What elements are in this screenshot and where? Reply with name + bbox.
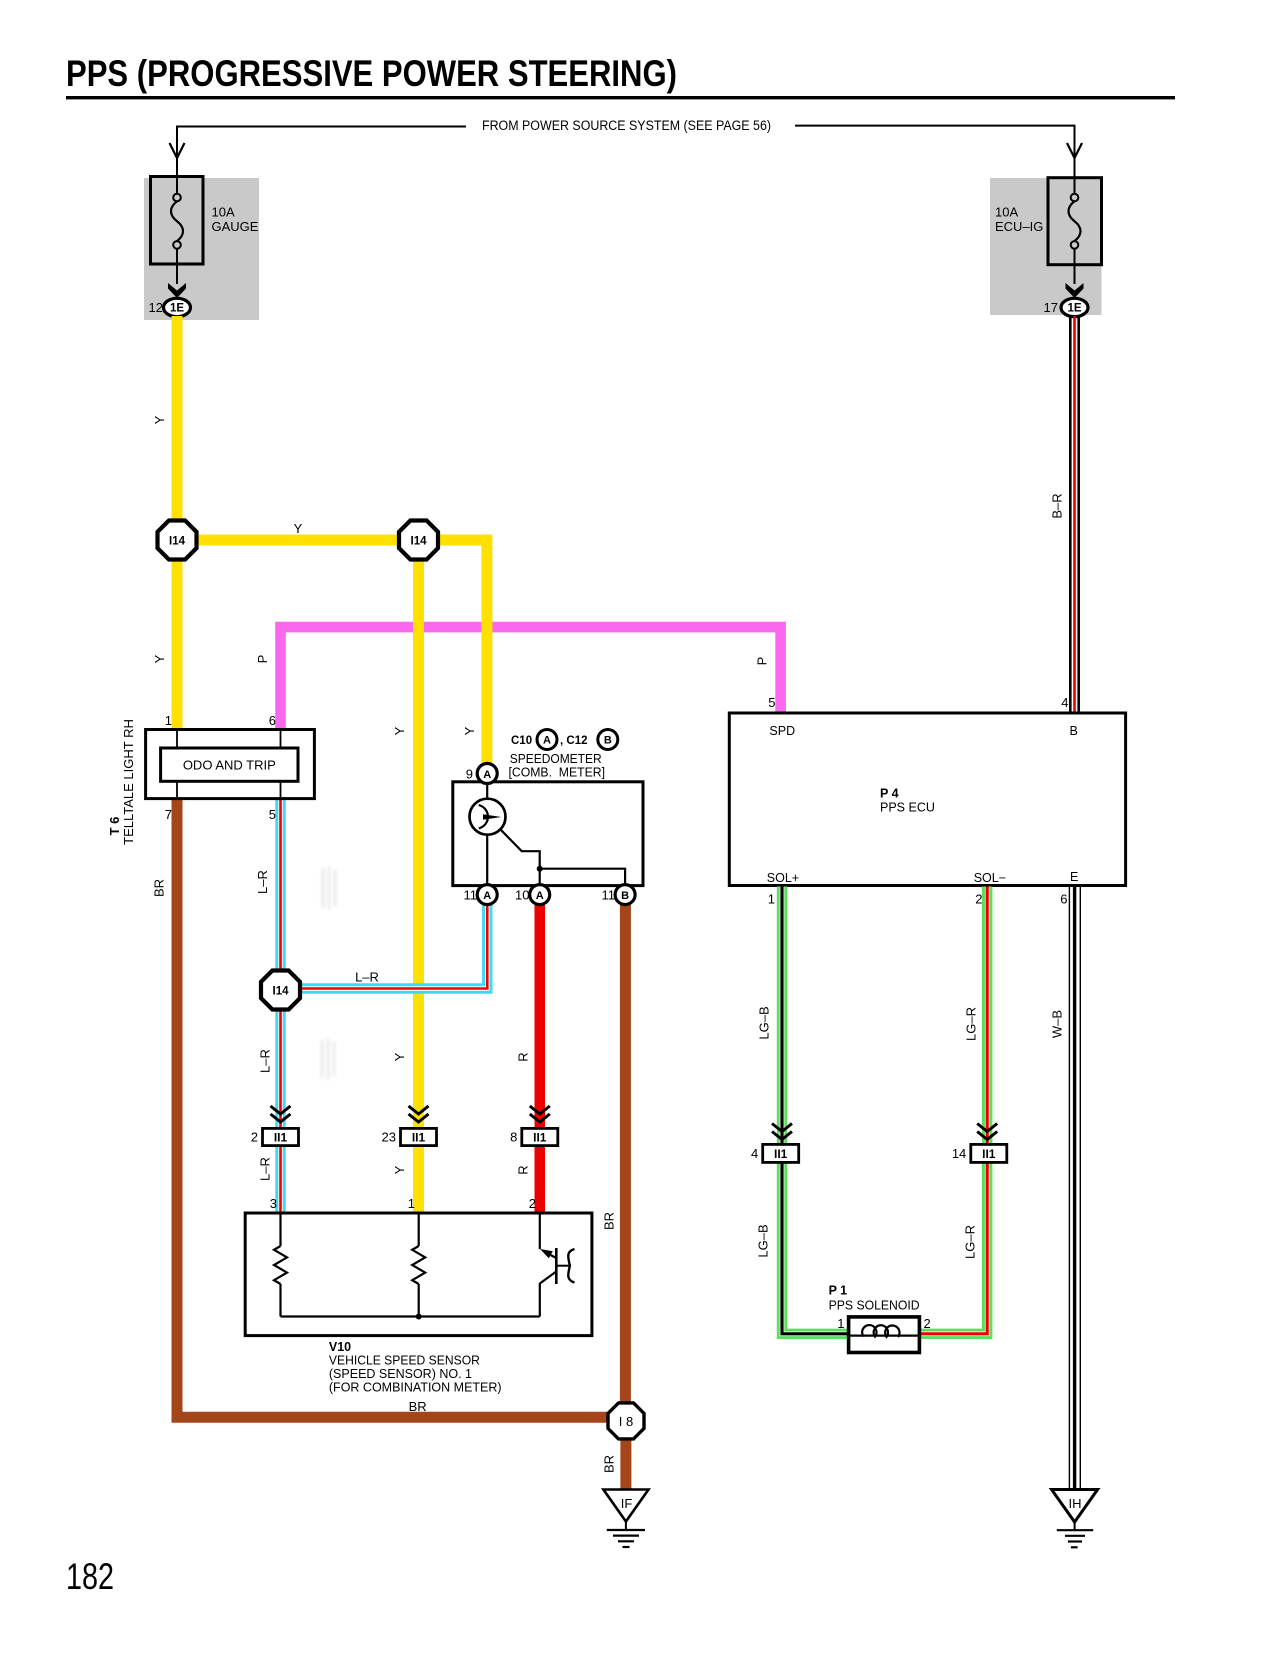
svg-text:6: 6: [269, 713, 276, 728]
svg-text:I 8: I 8: [619, 1414, 633, 1429]
svg-text:1: 1: [837, 1316, 844, 1331]
svg-text:9: 9: [466, 766, 473, 781]
svg-text:VEHICLE SPEED SENSOR: VEHICLE SPEED SENSOR: [329, 1354, 480, 1368]
svg-text:5: 5: [768, 695, 775, 710]
svg-text:L–R: L–R: [355, 970, 379, 985]
svg-text:2: 2: [924, 1316, 931, 1331]
svg-text:182: 182: [66, 1556, 114, 1597]
svg-text:C10: C10: [511, 735, 532, 747]
svg-text:LG–R: LG–R: [963, 1225, 978, 1259]
junction dot: [416, 1314, 422, 1320]
svg-text:V10: V10: [329, 1340, 351, 1354]
wire LG-B from ECU SOL+ to II1: [777, 887, 787, 1145]
svg-text:B–R: B–R: [1050, 493, 1065, 518]
internal bus wire: [281, 1315, 540, 1317]
label C10 A , C12 B: [511, 730, 618, 750]
svg-text:E: E: [1070, 870, 1078, 884]
svg-text:R: R: [515, 1165, 530, 1174]
svg-text:Y: Y: [392, 726, 407, 735]
ground IF: [603, 1490, 648, 1548]
wire power feed right: [795, 126, 1082, 178]
wire BR (brown) T6 pin 7 down and right to I8: [177, 798, 612, 1417]
component P4 PPS ECU: [729, 713, 1125, 886]
wire Y horizontal I14 to I14: [177, 535, 419, 546]
connector 17 1E: [1044, 298, 1088, 316]
svg-text:LG–B: LG–B: [756, 1224, 771, 1257]
svg-text:Y: Y: [392, 1052, 407, 1061]
svg-text:FROM POWER SOURCE SYSTEM (SEE: FROM POWER SOURCE SYSTEM (SEE PAGE 56): [482, 118, 771, 133]
svg-text:3: 3: [270, 1196, 277, 1211]
ground IH: [1052, 1490, 1098, 1548]
svg-text:6: 6: [1060, 892, 1067, 907]
connector II1 pin 14: [952, 1144, 1007, 1162]
wire R (red) speedometer 10(A) to V10 pin 2: [535, 903, 546, 1214]
connector 11 B bottom: [602, 885, 636, 905]
svg-text:IH: IH: [1069, 1496, 1082, 1511]
svg-text:7: 7: [165, 807, 172, 822]
junction I14 left: [158, 521, 197, 560]
svg-text:BR: BR: [602, 1212, 617, 1230]
svg-text:II1: II1: [274, 1131, 288, 1145]
svg-text:P: P: [255, 655, 270, 664]
chevron arrows above II1 pin14: [977, 1124, 997, 1140]
svg-text:BR: BR: [152, 879, 167, 897]
svg-text:SOL+: SOL+: [767, 871, 799, 885]
svg-text:Y: Y: [294, 521, 303, 536]
svg-text:W–B: W–B: [1050, 1010, 1065, 1038]
wire L-R from junction I14 down to connector II1 pin 2: [275, 1003, 285, 1128]
chevron arrows above II1 pin4: [772, 1124, 792, 1140]
svg-text:10: 10: [515, 887, 529, 902]
svg-text:BR: BR: [602, 1455, 617, 1473]
svg-text:1E: 1E: [170, 303, 184, 315]
svg-text:(FOR COMBINATION METER): (FOR COMBINATION METER): [329, 1381, 502, 1395]
svg-text:P: P: [755, 657, 770, 666]
gauge icon: [470, 799, 506, 835]
svg-text:10A: 10A: [995, 205, 1018, 220]
svg-text:ECU–IG: ECU–IG: [995, 219, 1043, 234]
svg-text:L–R: L–R: [258, 1049, 273, 1073]
fuse 10A ECU-IG (right fuse block): [990, 178, 1102, 315]
wire L-R from junction I14 to speedometer 11(A): [282, 903, 487, 989]
svg-text:P 1: P 1: [829, 1284, 848, 1298]
svg-text:11: 11: [464, 887, 478, 902]
svg-text:R: R: [515, 1052, 530, 1061]
svg-text:2: 2: [529, 1196, 536, 1211]
svg-text:23: 23: [382, 1130, 396, 1145]
component speedometer C10/C12: [453, 782, 643, 889]
wire Y (yellow) fuse 12 down to T6 pin 1: [172, 316, 183, 731]
connector 12 1E: [149, 298, 191, 316]
svg-text:SPEEDOMETER: SPEEDOMETER: [510, 752, 602, 766]
component T6 TELLTALE LIGHT RH: [146, 730, 315, 799]
wire LG-R from II1 to solenoid pin 2: [918, 1162, 987, 1333]
svg-text:Y: Y: [462, 726, 477, 735]
svg-text:II1: II1: [982, 1147, 996, 1161]
component P1 PPS SOLENOID: [849, 1317, 920, 1353]
svg-text:LG–R: LG–R: [964, 1007, 979, 1041]
connector II1 pin 2: [251, 1128, 299, 1145]
svg-text:[COMB. METER]: [COMB. METER]: [509, 766, 606, 780]
wire Y corner to speedometer 9(A): [430, 540, 487, 764]
svg-text:A: A: [483, 890, 491, 902]
svg-text:SPD: SPD: [769, 724, 795, 738]
chevron arrows above II1 pin8: [530, 1106, 550, 1122]
transistor Q: [539, 1214, 541, 1249]
svg-text:14: 14: [952, 1146, 966, 1161]
svg-text:II1: II1: [533, 1131, 547, 1145]
scan smudges: [321, 866, 336, 1080]
svg-text:LG–B: LG–B: [757, 1006, 772, 1039]
svg-text:10A: 10A: [212, 205, 235, 220]
svg-text:PPS (PROGRESSIVE POWER STEERIN: PPS (PROGRESSIVE POWER STEERING): [66, 53, 677, 94]
wire BR speedometer 11(B) down to I8: [620, 903, 631, 1404]
connector II1 pin 4: [751, 1144, 799, 1162]
svg-text:B: B: [621, 890, 629, 902]
svg-text:II1: II1: [774, 1147, 788, 1161]
junction I14 lower: [261, 971, 300, 1010]
svg-text:2: 2: [975, 892, 982, 907]
svg-text:11: 11: [602, 887, 616, 902]
wire L-R from T6 pin 5 down to junction I14: [275, 798, 285, 978]
svg-text:B: B: [1070, 724, 1078, 738]
svg-text:4: 4: [1061, 695, 1068, 710]
wire W-B from ECU E to ground IH: [1069, 887, 1081, 1490]
svg-text:12: 12: [149, 300, 163, 315]
junction I14 mid: [399, 521, 438, 560]
svg-text:T 6: T 6: [107, 817, 122, 836]
svg-text:1: 1: [768, 892, 775, 907]
wire LG-R from ECU SOL- to II1: [982, 887, 992, 1145]
svg-text:L–R: L–R: [255, 870, 270, 894]
svg-text:1E: 1E: [1067, 303, 1081, 315]
chevron arrows above II1 pin23: [409, 1106, 429, 1122]
wire Y vertical I14 to V10 pin 1: [413, 545, 424, 1214]
svg-text:Y: Y: [152, 415, 167, 424]
component V10 vehicle speed sensor: [245, 1213, 592, 1336]
connector II1 pin 8: [510, 1128, 558, 1145]
svg-text:I14: I14: [273, 986, 290, 998]
svg-text:IF: IF: [621, 1496, 633, 1511]
chevron arrows above II1 pin2: [271, 1106, 291, 1122]
svg-text:(SPEED SENSOR) NO. 1: (SPEED SENSOR) NO. 1: [329, 1367, 472, 1381]
junction I8: [608, 1403, 644, 1439]
svg-text:L–R: L–R: [258, 1157, 273, 1181]
wire L-R from II1 to V10 pin 3: [275, 1146, 285, 1214]
connector 10 A bottom: [515, 885, 550, 905]
svg-text:8: 8: [510, 1130, 517, 1145]
resistor R mid: [418, 1214, 420, 1246]
svg-text:SOL−: SOL−: [974, 871, 1006, 885]
svg-text:2: 2: [251, 1130, 258, 1145]
svg-text:BR: BR: [409, 1399, 427, 1414]
svg-text:ODO AND TRIP: ODO AND TRIP: [183, 758, 276, 773]
svg-text:II1: II1: [412, 1131, 426, 1145]
connector 9 A top: [466, 764, 497, 784]
connector 11 A bottom: [464, 885, 498, 905]
svg-text:I14: I14: [169, 536, 186, 548]
wire power feed left: [170, 127, 467, 178]
svg-text:Y: Y: [152, 654, 167, 663]
svg-text:A: A: [483, 769, 491, 781]
svg-text:Y: Y: [392, 1165, 407, 1174]
svg-text:GAUGE: GAUGE: [212, 219, 259, 234]
wire LG-B from II1 to solenoid pin 1: [782, 1162, 850, 1333]
svg-text:I14: I14: [411, 536, 428, 548]
svg-text:1: 1: [165, 713, 172, 728]
svg-text:PPS ECU: PPS ECU: [880, 801, 935, 815]
svg-text:5: 5: [269, 807, 276, 822]
title rule: [66, 96, 1175, 99]
svg-text:4: 4: [751, 1146, 758, 1161]
svg-text:A: A: [536, 890, 544, 902]
svg-text:, C12: , C12: [560, 735, 588, 747]
resistor R left: [279, 1214, 281, 1246]
fuse 10A GAUGE (left fuse block): [144, 177, 259, 321]
svg-text:A: A: [543, 735, 551, 747]
wire BR I8 to ground IF: [620, 1437, 631, 1490]
connector II1 pin 23: [382, 1128, 437, 1145]
wire B-R (black-red) from fuse 17 to PPS ECU pin 4: [1069, 316, 1080, 714]
svg-text:17: 17: [1044, 300, 1058, 315]
wire P (pink) T6 pin6 to PPS ECU pin 5 SPD: [281, 627, 781, 731]
svg-text:1: 1: [408, 1196, 415, 1211]
svg-text:B: B: [604, 735, 612, 747]
svg-text:P 4: P 4: [880, 787, 899, 801]
svg-text:TELLTALE LIGHT RH: TELLTALE LIGHT RH: [121, 719, 136, 845]
svg-text:PPS SOLENOID: PPS SOLENOID: [829, 1299, 920, 1313]
